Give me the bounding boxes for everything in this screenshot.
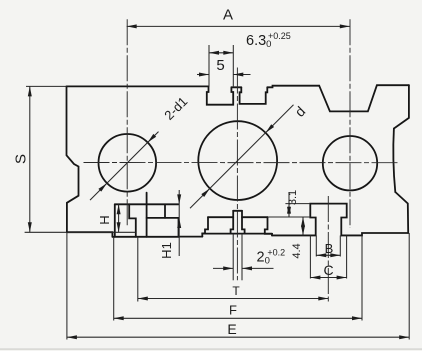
svg-text:3.1: 3.1	[287, 190, 299, 205]
svg-text:4.4: 4.4	[291, 243, 303, 258]
svg-text:F: F	[229, 303, 237, 318]
svg-text:B: B	[325, 241, 334, 256]
svg-text:E: E	[227, 321, 236, 337]
svg-text:5: 5	[216, 57, 224, 74]
svg-text:H: H	[97, 215, 112, 224]
svg-text:H1: H1	[159, 242, 174, 259]
svg-text:S: S	[13, 154, 30, 164]
svg-text:C: C	[323, 262, 333, 278]
svg-text:T: T	[232, 284, 240, 298]
svg-text:A: A	[223, 7, 233, 24]
